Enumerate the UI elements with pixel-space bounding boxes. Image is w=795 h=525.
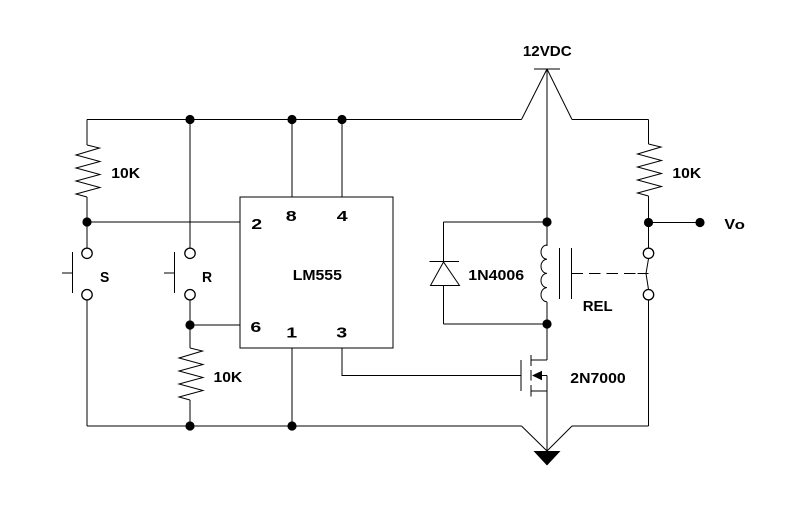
wire bottom resistor to rail: [189, 400, 191, 426]
svg-text:10K: 10K: [111, 165, 140, 181]
wire bottom rail right: [572, 425, 649, 427]
wire R to junction: [189, 300, 191, 325]
wire bottom rail left: [87, 425, 522, 427]
wire pin 3 to gate: [342, 348, 521, 376]
op-amp U1 LM555 box: [240, 197, 393, 348]
svg-text:LM555: LM555: [293, 267, 343, 283]
resistor 10K (right): [638, 144, 662, 196]
ground: [534, 451, 561, 466]
power symbol 12VDC: [522, 43, 573, 119]
wire ground slant right: [547, 426, 572, 451]
svg-text:10K: 10K: [672, 165, 701, 181]
wire diode bottom: [444, 323, 548, 325]
wire to switch S: [86, 222, 88, 248]
wire pin6 horizontal: [190, 324, 240, 326]
wire pin2 horizontal: [87, 221, 240, 223]
svg-text:1: 1: [286, 324, 297, 341]
node junction pin 8 top rail: [287, 115, 296, 124]
wire diode anode lead: [443, 286, 445, 325]
wire S to bottom rail: [86, 300, 88, 426]
node junction coil bottom: [542, 319, 551, 328]
svg-text:o: o: [735, 218, 745, 233]
svg-text:2: 2: [251, 215, 262, 232]
wire right resistor top lead: [648, 120, 650, 145]
wire to Vo terminal: [649, 222, 701, 224]
node junction top rail R branch: [185, 115, 194, 124]
wire relay actuator dashed: [572, 273, 649, 275]
svg-text:R: R: [202, 270, 213, 286]
wire junction to bottom resistor: [189, 325, 191, 348]
diode 1N4006: [430, 262, 525, 286]
node junction coil top: [542, 217, 551, 226]
switch S pushbutton: [62, 248, 109, 300]
transistor Q1 2N7000: [521, 324, 626, 451]
node junction pin 4 top rail: [337, 115, 346, 124]
wire right resistor bottom lead: [648, 196, 650, 222]
resistor 10K (bottom): [179, 348, 203, 400]
svg-text:12VDC: 12VDC: [523, 43, 572, 60]
svg-text:2N7000: 2N7000: [570, 370, 625, 386]
switch R pushbutton: [164, 248, 213, 300]
svg-text:1N4006: 1N4006: [468, 267, 524, 283]
wire coil bottom: [546, 302, 548, 324]
wire left resistor bottom lead: [86, 197, 88, 222]
node Vo terminal: [695, 218, 704, 227]
wire contact to bottom rail: [648, 300, 650, 426]
wire top rail left: [87, 119, 522, 121]
wire to relay contact: [648, 226, 650, 248]
node junction pin 1 bottom rail: [287, 421, 296, 430]
node junction left (trigger): [82, 217, 91, 226]
relay contact: [638, 248, 654, 300]
svg-text:S: S: [100, 270, 109, 286]
wire top rail right: [572, 119, 649, 121]
svg-text:8: 8: [286, 208, 297, 225]
wire diode top: [444, 221, 548, 223]
wire pin 1: [291, 348, 293, 426]
node junction bottom rail left: [185, 421, 194, 430]
wire left resistor top lead: [86, 120, 88, 146]
svg-text:6: 6: [250, 318, 261, 335]
wire R branch vertical: [189, 120, 191, 249]
wire diode cathode lead: [443, 222, 445, 262]
wire pin 4: [341, 120, 343, 198]
wire ground slant left: [522, 426, 548, 451]
svg-text:3: 3: [336, 324, 347, 341]
wire 12VDC to coil: [546, 69, 548, 246]
svg-text:4: 4: [337, 208, 348, 225]
svg-text:10K: 10K: [214, 369, 243, 385]
resistor 10K (left): [76, 145, 100, 197]
node junction pin6: [185, 320, 194, 329]
node junction Vo: [644, 218, 653, 227]
wire pin 8: [291, 120, 293, 198]
relay coil REL: [541, 245, 613, 315]
svg-text:REL: REL: [583, 299, 613, 315]
